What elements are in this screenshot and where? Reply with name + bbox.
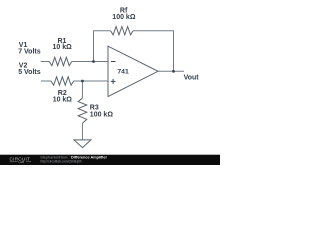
svg-text:741: 741 [117, 69, 129, 76]
svg-text:7 Volts: 7 Volts [18, 49, 41, 56]
svg-text:LAB: LAB [19, 160, 25, 164]
svg-text:10 kΩ: 10 kΩ [53, 96, 73, 103]
svg-text:Vout: Vout [184, 74, 200, 81]
svg-text:http://circuitlab.com/c6m9q6h: http://circuitlab.com/c6m9q6h [40, 160, 82, 164]
svg-text:10 kΩ: 10 kΩ [53, 44, 73, 51]
svg-text:100 kΩ: 100 kΩ [90, 112, 114, 119]
svg-text:100 kΩ: 100 kΩ [112, 14, 136, 21]
svg-text:R3: R3 [90, 105, 99, 112]
svg-text:5 Volts: 5 Volts [18, 69, 41, 76]
